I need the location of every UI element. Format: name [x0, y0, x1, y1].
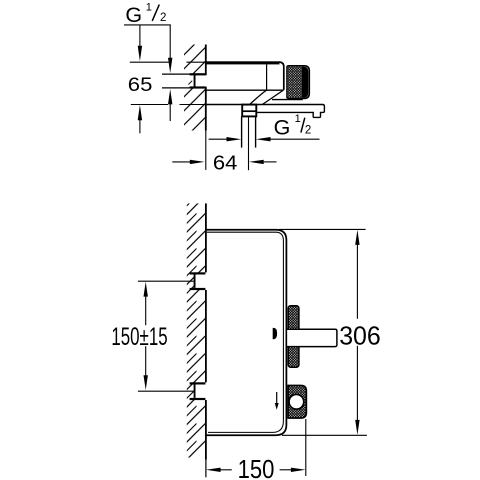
body underside curve [250, 90, 267, 104]
dim 150±15 line and arrows [144, 282, 148, 297]
body bottom line [206, 89, 284, 91]
dim 65 extension line top [130, 61, 169, 63]
inlet fitting interior clearing [195, 75, 206, 86]
leader arrow to pipe top [169, 25, 171, 58]
body front joint line [266, 64, 268, 90]
bath spout (front view bar) [286, 329, 337, 346]
dim 306 extension lines [279, 228, 366, 230]
svg-text:1: 1 [146, 1, 152, 13]
svg-text:65: 65 [128, 74, 153, 96]
inlet fitting (wall union), top view [190, 73, 206, 75]
svg-text:G: G [274, 115, 291, 139]
body underside diagonal to corner [262, 91, 283, 105]
leader arrow to body top [139, 25, 141, 47]
wall (hatched), top view [184, 45, 206, 131]
outlet direction arrow on body [276, 392, 278, 403]
spout tip, underside and aerator nub [256, 105, 324, 118]
hatch tick inside pipe [188, 81, 192, 85]
dim 306 line and arrows [355, 230, 359, 245]
pipe G 1/2 lower arrow [168, 89, 172, 104]
wall face line, top view [205, 45, 207, 76]
dim 64 [172, 161, 190, 163]
supply pipe interior clearing [161, 75, 195, 87]
dim 65 lower arrow [138, 105, 142, 120]
svg-text:2: 2 [305, 125, 311, 137]
dim 150±15 extension lines [138, 280, 194, 282]
dim 150 (bottom) [305, 419, 307, 476]
svg-text:150: 150 [238, 456, 275, 480]
dim 65 extension line bottom [131, 104, 168, 106]
leader underline for G 1/2 [124, 24, 171, 26]
svg-text:1: 1 [295, 113, 301, 125]
temperature button mark [273, 328, 277, 339]
svg-text:64: 64 [213, 153, 238, 175]
shower hose knob (front), knurled with hose hole [288, 385, 306, 418]
supply fitting 2 (front) [190, 382, 206, 384]
fitting interiors clearing [194, 274, 207, 288]
knurled knob, top view [287, 66, 309, 99]
svg-text:306: 306 [339, 321, 381, 351]
outlet G 1/2 pointer arrows [209, 138, 228, 140]
thermostat body top bar [206, 61, 280, 64]
unit inner edge line [207, 232, 284, 432]
wall face extension line down to 64 dim [205, 131, 207, 170]
supply pipe lines [162, 73, 194, 75]
svg-text:150±15: 150±15 [111, 323, 167, 351]
body top-right corner and right edge [279, 62, 284, 90]
neck underside line below knob [272, 99, 303, 101]
wall face line, front view [205, 203, 207, 272]
bath spout top line [206, 104, 323, 106]
wall (hatched), front view [187, 203, 206, 457]
svg-text:G: G [125, 3, 142, 27]
unit body outline [207, 230, 287, 436]
wall face extension to 150 dim [205, 460, 207, 478]
shower outlet pipe lines [241, 117, 243, 148]
shower outlet collar [242, 105, 256, 117]
outlet centerline extension [248, 117, 250, 171]
svg-text:2: 2 [160, 12, 166, 24]
control knob edge (front), knurled [288, 306, 299, 368]
supply fitting 1 (front) [190, 272, 206, 274]
